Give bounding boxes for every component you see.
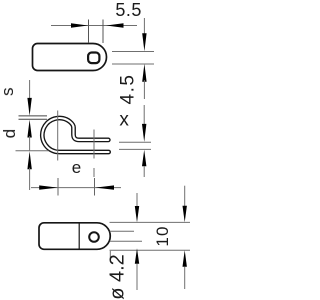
svg-text:4.5: 4.5 [118,74,139,105]
bottom view: bend line [78,223,80,250]
dim e line [31,187,121,189]
hole dia leader line [109,251,111,260]
top view: tab hole [88,53,99,64]
dim d line tail [29,168,31,190]
clip profile: strip inner white core [42,118,108,152]
dim 10 second line bottom tail [184,267,186,289]
dim e arrow right [95,185,114,189]
dim 10 second arrow up [183,250,187,267]
svg-text:x: x [119,109,129,130]
dim 10 arrow down [135,206,139,223]
hole edge extension line upper [110,230,134,232]
clip profile: bent strip material [42,118,108,152]
top view: clamp tab side elevation [33,44,107,71]
dim s extension line bottom [19,118,48,120]
tab hole centerline lower dash [93,168,95,177]
dim x extension line bottom [119,148,151,150]
svg-text:d: d [0,129,19,138]
svg-text:e: e [72,158,81,177]
bottom view: hole [89,232,99,242]
dim s arrow down [27,98,31,116]
dim d extension line [16,150,49,152]
dim 4.5 arrow up [142,64,146,82]
dim s extension line top [19,115,48,117]
dim 10 line tail [136,264,138,290]
dim s arrow up / dim d arrow top [27,120,31,138]
dim 5.5 extension line left [88,20,90,44]
dim x line top [143,105,145,128]
dim 4.5 arrow down [142,33,146,51]
hole edge extension line lower [110,240,142,242]
dim s line upper [29,80,31,101]
dim e extension line right [94,178,96,196]
dim 5.5 arrow right [106,23,123,27]
dim e extension line left [57,178,59,196]
dim 10 second arrow down [183,206,187,223]
svg-text:ø 4.2: ø 4.2 [107,254,129,300]
dim x arrow down [142,124,146,142]
dim 4.5 extension line bottom [112,63,154,65]
bottom view: clamp tab plan [39,223,110,250]
dim 5.5 arrow left [71,23,88,27]
dim 4.5 vertical line tail [143,80,145,99]
dim 5.5 extension line right [102,20,104,44]
svg-text:s: s [0,87,17,96]
loop vertical centerline [57,111,59,161]
dim x line tail [143,166,145,177]
dim 10 line top [136,193,138,210]
dim x extension line top [119,141,151,143]
dim 10 arrow up [135,248,139,264]
svg-text:5.5: 5.5 [115,0,142,20]
dim d line middle [29,136,31,150]
dim e arrow left [39,185,58,189]
dim 5.5 line [51,25,137,27]
dim 10 extension line bottom [110,249,191,251]
dim x arrow up [142,150,146,167]
dim 10 extension line top [110,221,191,223]
svg-text:10: 10 [153,225,172,246]
dim 4.5 extension line top [112,51,154,53]
dim 4.5 vertical line top [143,18,145,40]
tab hole centerline [93,130,95,159]
dim 10 second line top tail [184,186,186,208]
dim d arrow bottom [27,151,31,169]
